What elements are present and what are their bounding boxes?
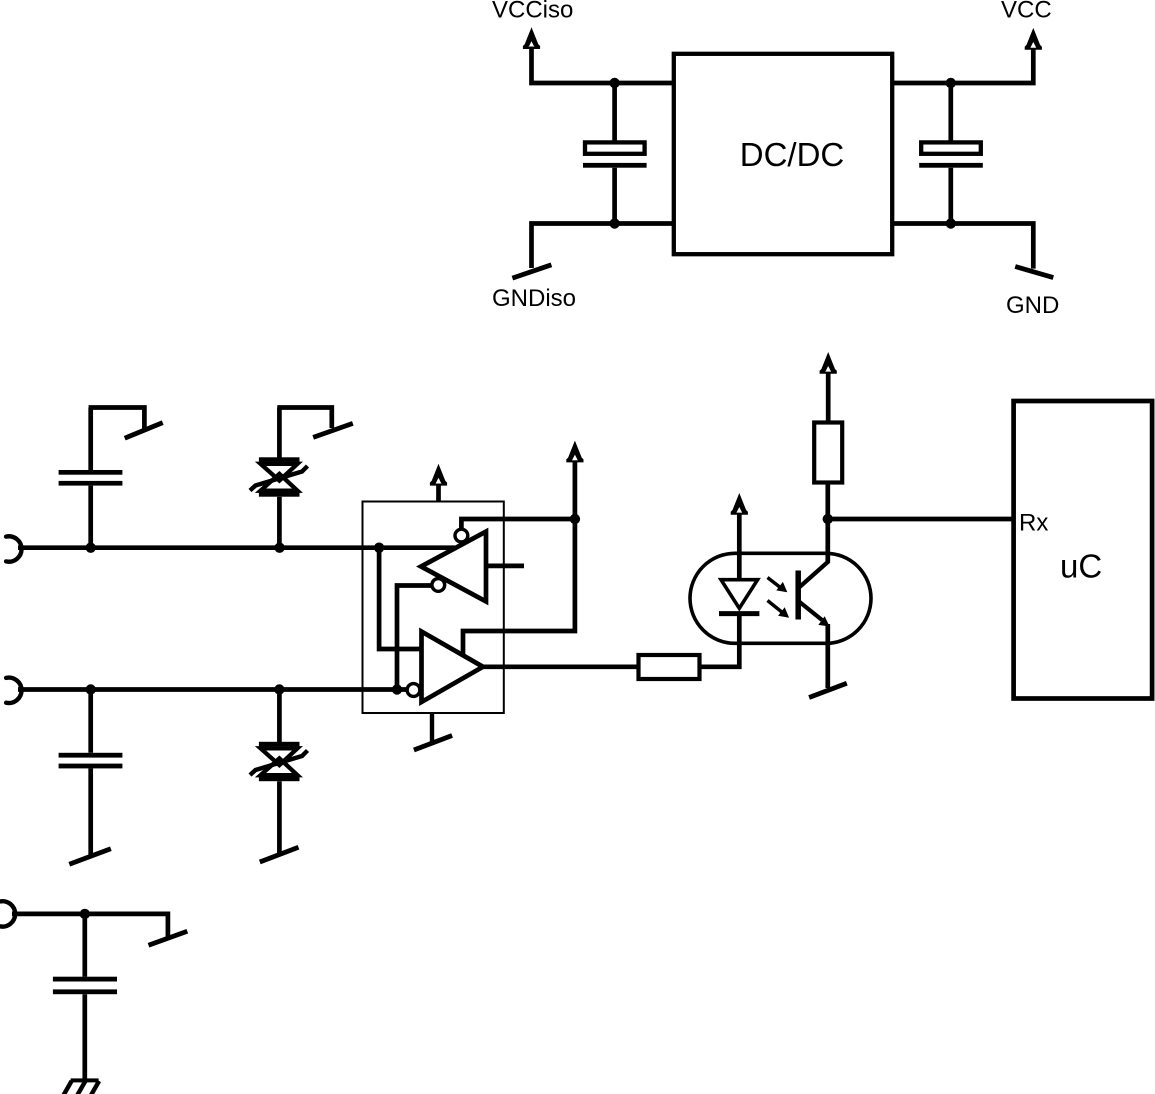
resistor R2 pull-up xyxy=(814,423,842,483)
power flag above feedback node xyxy=(566,441,583,519)
connector pin B xyxy=(6,678,21,703)
uC box U4 xyxy=(1014,401,1153,699)
capacitor C3 xyxy=(59,408,123,548)
phototransistor Q1 xyxy=(798,519,829,688)
power flag above U2 xyxy=(430,464,447,502)
junction xyxy=(274,543,284,553)
capacitor C5 xyxy=(53,914,117,1080)
wire bubble to VCC node xyxy=(461,519,575,529)
buffer A (upper, left-pointing) xyxy=(421,532,486,602)
junction xyxy=(86,543,96,553)
power flag VCCiso xyxy=(523,27,540,49)
junction xyxy=(946,78,956,88)
ground GNDiso xyxy=(512,265,551,278)
resistor R1 xyxy=(639,655,700,679)
capacitor C1 xyxy=(583,83,647,224)
svg-text:VCCiso: VCCiso xyxy=(492,0,573,23)
wire bus A xyxy=(18,545,455,550)
junction xyxy=(86,684,96,694)
ground tick below D2 xyxy=(260,847,299,862)
junction xyxy=(609,218,619,228)
TVS diode D1 xyxy=(250,408,308,548)
LED D3 xyxy=(719,580,759,614)
wire VCC rail right xyxy=(894,47,1033,83)
junction feedback node xyxy=(570,514,580,524)
svg-text:VCC: VCC xyxy=(1001,0,1052,24)
inversion bubble upper input xyxy=(455,529,468,542)
junction bus B inside U2 xyxy=(392,684,402,694)
svg-text:GND: GND xyxy=(1006,292,1059,319)
ground tick below C4 xyxy=(69,849,111,865)
svg-text:uC: uC xyxy=(1060,547,1102,584)
light arrow 1 xyxy=(768,578,788,593)
power flag above LED xyxy=(731,493,748,580)
power flag above R2 xyxy=(820,352,837,423)
earth ground xyxy=(64,1078,100,1094)
ground tick bus C xyxy=(149,931,188,945)
wire bus B xyxy=(18,687,407,692)
svg-text:GNDiso: GNDiso xyxy=(492,285,576,312)
connector pin C xyxy=(0,901,15,926)
TVS diode D2 xyxy=(250,690,308,854)
optocoupler U3 body xyxy=(690,553,871,643)
ground GND xyxy=(1015,267,1053,278)
comparator box U2 xyxy=(363,502,504,714)
junction xyxy=(80,909,90,919)
output stub buffer A xyxy=(486,564,524,569)
wire buffer B output xyxy=(483,664,639,669)
ground tick below U2 xyxy=(414,714,452,751)
capacitor C2 xyxy=(919,83,983,224)
capacitor C4 xyxy=(59,690,123,856)
junction xyxy=(274,684,284,694)
power flag VCC xyxy=(1025,28,1042,50)
wire crossover from bus A to lower buffer xyxy=(379,548,419,649)
svg-text:DC/DC: DC/DC xyxy=(740,136,845,173)
junction Rx node xyxy=(823,514,833,524)
buffer B (lower, right-pointing) xyxy=(422,632,484,703)
inversion bubble lower input of buffer A xyxy=(432,579,445,592)
ground tick emitter xyxy=(809,683,847,697)
wire VCCiso rail left xyxy=(532,47,673,84)
wire Rx node to uC xyxy=(828,517,1012,522)
svg-text:Rx: Rx xyxy=(1019,510,1048,537)
ground tick (isolated) above D1 xyxy=(277,408,353,438)
junction xyxy=(609,78,619,88)
light arrow 2 xyxy=(768,601,790,618)
wire bus C xyxy=(12,914,168,937)
junction bus A inside U2 xyxy=(374,543,384,553)
wire R1 to LED cathode xyxy=(700,614,740,667)
wire R2 to node xyxy=(825,483,830,520)
junction xyxy=(946,218,956,228)
connector pin A xyxy=(6,536,21,561)
ground tick (isolated) above C3 xyxy=(89,408,163,439)
inversion bubble lower buffer xyxy=(407,684,420,697)
wire crossover from bus B to upper buffer xyxy=(397,586,432,690)
wire GND rail right xyxy=(894,224,1033,269)
wire feedback to lower buffer input xyxy=(463,519,575,654)
wire GNDiso rail left xyxy=(532,224,673,269)
DC/DC converter U1 xyxy=(674,54,892,254)
